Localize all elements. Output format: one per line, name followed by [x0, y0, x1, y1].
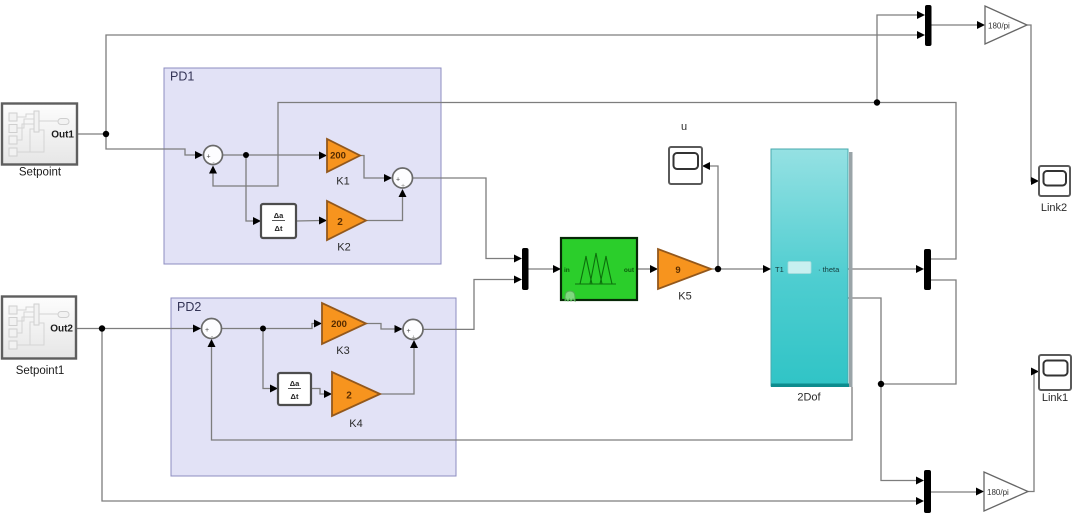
svg-text:180/pi: 180/pi: [987, 488, 1009, 497]
arrow into top mux input 2: [917, 31, 925, 39]
wire node up to top mux input 1: [877, 15, 919, 103]
wire PD2 sum2 output to mux input 2: [424, 280, 517, 330]
wire top mux output to 180/pi gain: [931, 24, 979, 26]
arrow into mux input 1: [514, 255, 522, 263]
svg-text:Link2: Link2: [1041, 202, 1067, 214]
arrow into K5: [650, 265, 658, 273]
PD2 area box: [171, 298, 456, 476]
arrow into PD1 sum1: [195, 151, 203, 159]
svg-text:+: +: [411, 335, 415, 342]
svg-text:Δa: Δa: [274, 211, 284, 220]
svg-text:+: +: [401, 183, 405, 190]
arrow into PD1 sum1 bottom: [209, 166, 217, 174]
svg-text:+: +: [205, 327, 209, 334]
arrow into PD2 sum1: [193, 325, 201, 333]
node after Setpoint1: [99, 325, 105, 331]
svg-text:K1: K1: [336, 176, 349, 188]
mux bottom: [924, 470, 931, 513]
gain K1: [327, 139, 360, 188]
wire PD2 feedback loop from 2Dof to sum1 bottom: [212, 346, 853, 440]
node feedback top: [874, 99, 880, 105]
fuzzy logic controller: [561, 238, 637, 301]
scope Link2: [1039, 166, 1070, 214]
wire K1 to PD1 sum2: [360, 156, 386, 179]
arrow into PD1 sum2: [384, 174, 392, 182]
svg-text:180/pi: 180/pi: [988, 22, 1010, 31]
svg-text:Setpoint: Setpoint: [19, 167, 62, 179]
svg-text:Δt: Δt: [275, 224, 283, 233]
gain K4: [332, 372, 380, 430]
gain K2: [327, 201, 366, 254]
wire node up to scope u: [709, 166, 718, 269]
svg-text:2Dof: 2Dof: [797, 392, 821, 404]
derivative block 2: [278, 373, 311, 405]
wire PD1 sum1 output to K1: [223, 154, 321, 156]
node after K5: [715, 266, 721, 272]
arrow into PD2 sum1 bottom: [208, 339, 216, 347]
wire Setpoint to branch node: [77, 133, 106, 135]
svg-text:Setpoint1: Setpoint1: [16, 365, 65, 377]
wire branch to derivative2: [263, 329, 272, 389]
svg-text:+: +: [406, 328, 410, 335]
arrow into PD2 sum2 bottom: [410, 340, 418, 348]
subsystem Setpoint1: [2, 297, 76, 378]
gain 180/pi top: [985, 6, 1027, 44]
svg-text:T1: T1: [775, 265, 784, 274]
wire bottom mux output to 180/pi gain: [931, 491, 978, 493]
wire 180/pi to Link2 scope: [1027, 25, 1033, 181]
wire mux output to fuzzy controller: [528, 268, 554, 270]
svg-text:200: 200: [330, 151, 346, 162]
svg-text:K3: K3: [336, 345, 349, 357]
wire K5 to 2Dof: [711, 268, 764, 270]
mux Mux1: [522, 248, 529, 290]
wire derivative1 to K2: [296, 220, 321, 223]
arrow into Link1: [1031, 368, 1039, 376]
wire PD2 sum1 output to K3: [222, 324, 316, 329]
arrow into PD1 sum2 bottom: [399, 189, 407, 197]
wire 2Dof second output down to node: [848, 298, 881, 384]
svg-text:Out1: Out1: [51, 130, 74, 141]
mux top: [925, 5, 932, 46]
svg-text:9: 9: [675, 265, 680, 276]
arrow into demux: [916, 265, 924, 273]
svg-text:2: 2: [346, 391, 352, 402]
wire K2 to PD1 sum2 bottom: [366, 196, 403, 221]
svg-text:· theta: · theta: [818, 265, 840, 274]
sum U2 (PD1 output): [393, 168, 413, 190]
arrow into 2Dof: [763, 265, 771, 273]
node after PD2 sum1: [260, 326, 266, 332]
arrow into PD2 sum2: [395, 325, 403, 333]
PD1 area box: [164, 68, 441, 264]
sum U4 (PD2 output): [403, 319, 423, 341]
gain K3: [322, 303, 366, 357]
wire demux lower branch to node: [881, 280, 956, 384]
gain 180/pi bottom: [984, 472, 1028, 511]
svg-text:in: in: [564, 267, 570, 274]
wire K4 to PD2 sum2 bottom: [380, 347, 414, 394]
svg-text:200: 200: [331, 319, 347, 330]
gain K5: [658, 249, 711, 303]
svg-text:K5: K5: [678, 291, 691, 303]
arrow into 180/pi bottom: [976, 488, 984, 496]
arrow into K1: [319, 152, 327, 160]
svg-text:out: out: [624, 267, 635, 274]
svg-text:PD2: PD2: [177, 300, 201, 314]
sum U1 (PD1 error): [204, 146, 223, 168]
arrow into 180/pi top: [977, 21, 985, 29]
svg-text:Δa: Δa: [290, 379, 300, 388]
wire Setpoint1 to PD2 sum1: [76, 328, 196, 330]
svg-text:K4: K4: [349, 418, 362, 430]
wire 2Dof theta output to demux: [848, 268, 917, 270]
ghost icon: [565, 291, 575, 301]
wire node to demux upper branch: [877, 103, 956, 260]
wire node down to bottom mux input 1: [881, 384, 918, 481]
arrow into derivative1: [253, 217, 261, 225]
node after Setpoint: [103, 131, 109, 137]
arrow into bottom mux input 1: [916, 477, 924, 485]
arrow into K3: [314, 320, 322, 328]
ARROWHEADS: [193, 11, 1039, 505]
wire Setpoint1 branch down to bottom mux input 2: [102, 329, 918, 502]
arrow into K4: [324, 390, 332, 398]
wire fuzzy controller to K5: [637, 268, 651, 270]
wire K3 to PD2 sum2: [366, 324, 397, 330]
svg-text:+: +: [396, 177, 400, 184]
arrow into mux input 2: [514, 276, 522, 284]
wire branch node up to top mux input 2: [106, 35, 919, 134]
scope u: [669, 121, 702, 184]
wire PD1 feedback from node to sum1 bottom: [213, 103, 877, 187]
wire derivative2 to K4: [311, 389, 326, 395]
svg-text:Out2: Out2: [50, 324, 73, 335]
arrow into bottom mux input 2: [916, 497, 924, 505]
demux: [924, 249, 931, 290]
subsystem Setpoint: [2, 104, 77, 179]
arrow into derivative2: [270, 385, 278, 393]
arrow into top mux input 1: [917, 11, 925, 19]
node after PD1 sum1: [243, 152, 249, 158]
arrow into scope u (pointing left): [702, 162, 710, 170]
arrow into fuzzy controller: [553, 265, 561, 273]
subsystem 2Dof: [771, 149, 853, 404]
svg-text:Δt: Δt: [291, 392, 299, 401]
wire branch node to PD1 sum1 input: [106, 134, 198, 155]
arrow into Link2: [1031, 177, 1039, 185]
wire PD1 sum2 output to mux input 1: [413, 178, 516, 259]
svg-text:+: +: [206, 154, 210, 161]
wire branch to derivative1: [246, 155, 255, 221]
arrow into K2: [319, 217, 327, 225]
svg-text:K2: K2: [337, 242, 350, 254]
svg-text:Link1: Link1: [1042, 392, 1068, 404]
svg-text:PD1: PD1: [170, 70, 194, 84]
derivative block 1: [261, 204, 296, 238]
node feedback bottom: [878, 381, 884, 387]
scope Link1: [1039, 355, 1071, 404]
wire 180/pi to Link1 scope: [1028, 372, 1034, 492]
svg-text:2: 2: [337, 217, 343, 228]
sum U3 (PD2 error): [202, 319, 222, 341]
svg-text:u: u: [681, 121, 687, 133]
